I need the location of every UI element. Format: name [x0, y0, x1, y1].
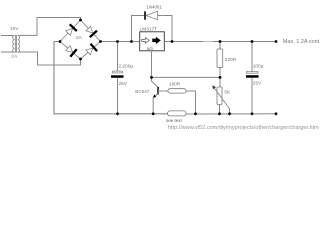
wire: wiper to rail: [229, 109, 231, 114]
wire: mains primary bottom stub: [1, 51, 15, 53]
wire: C2 top lead: [251, 42, 253, 72]
node: junction C1/negative rail: [116, 112, 119, 115]
node: positive output terminal: [275, 40, 278, 43]
bridge diode D4 (bottom to right): [86, 48, 93, 55]
node: junction Q1 emitter/rail: [152, 112, 155, 115]
node: bridge AC top node: [79, 19, 82, 22]
LM317 output arrow (filled): [153, 37, 161, 43]
wire: adj node horizontal: [152, 76, 221, 78]
node: junction C1/rail: [116, 40, 119, 43]
diode 1N4001: [144, 11, 146, 19]
node: adj node junction: [150, 76, 153, 79]
node: junction pot/rail: [218, 112, 221, 115]
wire: adj pin down: [151, 51, 153, 78]
transformer T1 core: [15, 35, 17, 53]
bridge diode D2 (top to right): [86, 26, 93, 33]
potentiometer wiper arrow: [214, 88, 230, 109]
potentiometer VR1 5K body: [217, 87, 222, 105]
node: junction R1/output rail: [219, 40, 222, 43]
wire: C2 bottom lead: [251, 78, 253, 114]
wire: 220R top lead: [219, 42, 221, 50]
svg-text:2.200µ: 2.200µ: [118, 64, 133, 70]
node: junction R2/rail: [194, 112, 197, 115]
capacitor C2 100u negative plate: [246, 75, 259, 78]
resistor R3 current sense (see text): [168, 111, 187, 116]
transistor Q1 emitter with arrow: [153, 94, 158, 98]
transformer T1 secondary winding: [18, 35, 20, 52]
svg-text:2A: 2A: [76, 35, 83, 41]
svg-text:BC547: BC547: [135, 89, 149, 94]
svg-text:LM317T: LM317T: [140, 27, 158, 33]
capacitor C1 2200u positive plate: [113, 71, 123, 73]
svg-text:180R: 180R: [169, 81, 181, 87]
transistor Q1 collector lead: [152, 77, 159, 87]
regulator U1 LM317T box: [140, 32, 165, 51]
wire: bridge positive to LM317 input: [101, 41, 140, 43]
resistor R2 180R: [168, 89, 186, 93]
bridge rectifier edges: [60, 20, 101, 59]
wire: mains primary top stub: [1, 35, 15, 37]
node: junction wiper/rail: [228, 112, 231, 115]
wire: C1 bottom lead: [117, 78, 119, 114]
node: bridge negative node: [59, 40, 62, 43]
LM317 input arrow (open): [142, 38, 150, 44]
node: junction R1 bottom/pot: [219, 76, 222, 79]
node: bridge AC bottom node: [79, 58, 82, 61]
svg-text:5K: 5K: [224, 90, 231, 96]
svg-text:1N4001: 1N4001: [146, 5, 162, 10]
svg-text:Max. 1.2A cont.: Max. 1.2A cont.: [283, 39, 320, 45]
node: junction 1N4001 anode/rail: [130, 40, 133, 43]
svg-text:25V: 25V: [253, 80, 262, 86]
node: junction C2/negative rail: [251, 112, 254, 115]
wire: bottom rail right of sense resistor: [186, 113, 276, 115]
capacitor C1 2200u negative plate: [111, 75, 124, 78]
wire fade artifact on output rail: [203, 41, 213, 43]
svg-text:16V: 16V: [10, 26, 19, 32]
transistor Q1 base bar: [157, 87, 159, 95]
svg-text:adj: adj: [147, 46, 153, 51]
node: bridge positive node: [99, 40, 102, 43]
wire: C1 top lead: [117, 42, 119, 72]
wire: 180R to rail: [186, 91, 196, 114]
svg-text:220R: 220R: [225, 57, 237, 63]
svg-text:see text: see text: [166, 118, 183, 123]
wire: 1N4001 left leg: [132, 16, 145, 42]
svg-text:100µ: 100µ: [253, 64, 264, 70]
bridge diode D1 (left to top): [66, 28, 73, 35]
wire: LM317 output rail: [164, 41, 276, 43]
svg-text:2A: 2A: [11, 53, 18, 59]
bridge diode D3 (left to bottom): [66, 46, 73, 53]
wire: secondary bottom to bridge AC bottom: [18, 52, 81, 65]
node: negative output terminal: [275, 112, 278, 115]
resistor R1 220R: [217, 49, 223, 68]
transistor Q1 base lead: [158, 90, 168, 92]
wire: 220R bottom to pot top: [219, 68, 221, 88]
wire: bridge negative to bottom rail: [54, 42, 168, 114]
wire: secondary top to bridge AC top: [18, 18, 81, 36]
transformer T1 primary winding: [13, 35, 15, 52]
svg-text:http://www.vt52.com/diy/myproj: http://www.vt52.com/diy/myprojects/other…: [168, 125, 319, 131]
svg-text:25V: 25V: [119, 81, 128, 87]
wire: 1N4001 right leg: [158, 16, 173, 42]
capacitor C2 100u positive plate: [246, 72, 258, 74]
node: junction 1N4001 cathode/output: [171, 40, 174, 43]
node: junction C2/output rail: [251, 40, 254, 43]
wire: pot bottom lead: [219, 105, 221, 114]
